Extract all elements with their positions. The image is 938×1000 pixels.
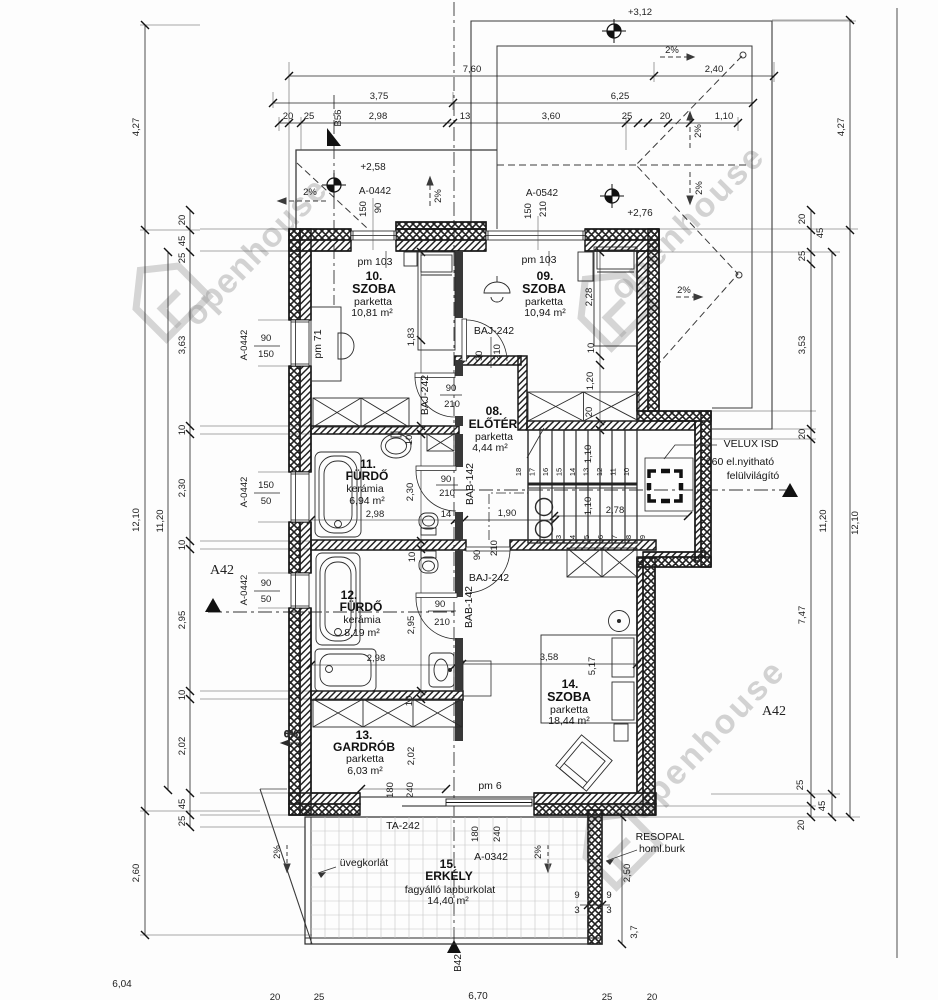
svg-text:BAJ-242: BAJ-242	[469, 572, 509, 584]
svg-text:4: 4	[568, 535, 577, 539]
svg-text:90: 90	[261, 333, 272, 344]
interior wall corridor/room14 right	[510, 540, 656, 550]
svg-text:2%: 2%	[272, 845, 283, 859]
svg-text:20: 20	[796, 820, 807, 831]
section line A42 left	[208, 611, 454, 613]
svg-text:GARDRÓB: GARDRÓB	[333, 739, 395, 754]
svg-text:2,95: 2,95	[177, 611, 188, 630]
svg-text:17: 17	[528, 468, 537, 476]
interior wall eloter/stair vertical	[518, 356, 527, 430]
svg-text:10: 10	[404, 696, 415, 707]
dim 1,90 corridor	[460, 516, 559, 524]
svg-text:25: 25	[622, 111, 633, 122]
svg-text:25: 25	[314, 992, 325, 1000]
svg-text:5: 5	[582, 535, 591, 539]
svg-text:2,40: 2,40	[705, 64, 724, 75]
svg-text:20: 20	[797, 214, 808, 225]
interior wall room10/bath11	[311, 426, 459, 434]
ROOF	[260, 8, 897, 958]
dim 2,50 balcony	[618, 813, 626, 948]
svg-text:A-0342: A-0342	[474, 851, 508, 863]
hip end circle mid	[736, 272, 742, 278]
svg-text:13: 13	[582, 468, 591, 476]
svg-text:3,58: 3,58	[540, 652, 559, 663]
svg-text:2%: 2%	[433, 189, 444, 203]
svg-text:11: 11	[609, 468, 618, 476]
room14 closet	[567, 548, 637, 577]
dim 2,98 bath12	[307, 661, 459, 669]
svg-text:10: 10	[622, 468, 631, 476]
svg-text:1,10: 1,10	[583, 445, 594, 464]
svg-text:BAJ-242: BAJ-242	[419, 375, 431, 415]
svg-text:10,81 m²: 10,81 m²	[351, 307, 393, 319]
svg-text:2,78: 2,78	[606, 505, 625, 516]
svg-text:210: 210	[538, 201, 549, 217]
svg-text:FÜRDŐ: FÜRDŐ	[340, 599, 383, 614]
DIMS	[140, 16, 860, 948]
svg-text:90: 90	[435, 599, 446, 610]
wall bottom	[289, 793, 656, 815]
svg-text:FÜRDŐ: FÜRDŐ	[346, 468, 389, 483]
dim col left 11,20	[164, 248, 172, 794]
svg-text:10: 10	[177, 425, 188, 436]
door labels bath11	[436, 474, 458, 499]
svg-text:9: 9	[574, 890, 579, 901]
svg-text:3,75: 3,75	[370, 91, 389, 102]
svg-text:13: 13	[460, 111, 471, 122]
dim col right detail	[807, 206, 815, 821]
svg-text:1,90: 1,90	[498, 508, 517, 519]
survey target +2,76	[600, 184, 624, 208]
svg-text:12,10: 12,10	[850, 511, 861, 535]
svg-text:2%: 2%	[677, 285, 691, 296]
slope arrow up near 1,10	[687, 112, 693, 148]
svg-text:6,03 m²: 6,03 m²	[347, 765, 383, 777]
room09 nightstand	[578, 252, 593, 281]
gardrob 6% arrow	[281, 729, 302, 746]
door labels corridor rot	[472, 540, 500, 560]
dim row detail top	[275, 119, 742, 127]
svg-text:1,83: 1,83	[406, 328, 417, 347]
svg-text:14: 14	[441, 509, 452, 520]
svg-text:45: 45	[815, 228, 826, 239]
section line A42 right	[454, 489, 790, 491]
FURNITURE	[281, 247, 717, 944]
svg-text:A-0442: A-0442	[239, 575, 250, 606]
interior wall room09 bottom	[455, 356, 521, 365]
svg-text:240: 240	[405, 782, 416, 798]
extension lines left	[140, 25, 312, 935]
svg-text:2,95: 2,95	[406, 616, 417, 635]
svg-text:pm 71: pm 71	[312, 329, 324, 358]
left window spec 3	[239, 575, 280, 606]
svg-text:2,98: 2,98	[367, 653, 386, 664]
window left bath12	[291, 573, 309, 608]
stairwell opening rect	[645, 458, 693, 511]
wall left	[289, 229, 311, 815]
WALLS	[289, 222, 711, 944]
svg-text:150: 150	[358, 201, 369, 217]
balcony tile grid	[311, 817, 588, 938]
velux skylight dashed	[649, 471, 681, 501]
svg-text:180: 180	[385, 782, 396, 798]
stair numbers top	[514, 468, 631, 476]
svg-text:2,02: 2,02	[406, 747, 417, 766]
svg-text:240: 240	[492, 826, 503, 842]
window top room10	[351, 231, 396, 240]
flag B56	[327, 128, 341, 146]
interior wall corridor/room14 left	[311, 540, 466, 550]
sheet edge right	[896, 8, 898, 958]
survey target top	[602, 19, 626, 43]
balcony slab	[305, 817, 602, 944]
roof valley dashed horizontal	[497, 164, 746, 166]
dim col left 4,27/12,10/2,60	[141, 21, 149, 939]
svg-text:9: 9	[606, 890, 611, 901]
dim row 7,60/2,40	[285, 72, 778, 80]
svg-text:3: 3	[554, 535, 563, 539]
door arc room10	[415, 373, 455, 417]
svg-text:SZOBA: SZOBA	[522, 282, 566, 296]
svg-text:3: 3	[606, 905, 611, 916]
room10 desk	[311, 307, 341, 381]
extension lines right	[602, 20, 860, 817]
svg-text:parketta: parketta	[346, 753, 384, 765]
svg-text:20: 20	[647, 992, 658, 1000]
svg-text:90: 90	[472, 550, 483, 561]
svg-text:2,98: 2,98	[369, 111, 388, 122]
wall stair bump right	[695, 411, 711, 567]
svg-text:A-0442: A-0442	[359, 186, 392, 197]
svg-text:210: 210	[489, 540, 500, 556]
svg-text:A42: A42	[762, 704, 786, 719]
wall top outer leaf	[289, 222, 659, 251]
room10 nightstand	[404, 252, 417, 266]
svg-text:14,40 m²: 14,40 m²	[427, 895, 469, 907]
dim row 3,75/6,25	[269, 99, 757, 107]
svg-text:+3,12: +3,12	[628, 7, 652, 18]
bath12 wc	[419, 551, 438, 573]
leader A-0542	[537, 216, 539, 250]
svg-text:12,10: 12,10	[131, 508, 142, 532]
axis B42	[453, 2, 455, 950]
svg-text:2%: 2%	[693, 124, 704, 138]
bath11 wc	[419, 513, 438, 535]
dim door TA 180	[357, 785, 450, 793]
svg-text:11,20: 11,20	[818, 509, 829, 532]
svg-text:7,60: 7,60	[463, 64, 482, 75]
dim ticks resopal 9/3	[580, 901, 610, 909]
room14 bed	[541, 635, 637, 723]
wall right upper room09	[637, 229, 659, 411]
svg-text:A-0442: A-0442	[239, 477, 250, 508]
svg-text:+2,58: +2,58	[360, 162, 386, 173]
svg-text:RESOPAL: RESOPAL	[636, 831, 685, 843]
terrace slope arrow left 2%	[278, 198, 326, 204]
svg-text:pm 103: pm 103	[357, 256, 392, 268]
svg-text:90: 90	[446, 383, 457, 394]
watermark logo 2	[569, 797, 659, 887]
svg-text:45: 45	[817, 801, 828, 812]
door arc bath11	[416, 466, 456, 511]
bath12 shower	[315, 649, 376, 691]
room09 bed	[594, 247, 637, 346]
svg-text:11,20: 11,20	[155, 509, 166, 532]
flag A42 left	[205, 598, 221, 612]
dim chain room09 x600	[596, 248, 604, 434]
svg-text:2,50: 2,50	[622, 864, 633, 883]
svg-text:2%: 2%	[694, 181, 705, 195]
svg-text:ERKÉLY: ERKÉLY	[425, 868, 473, 883]
room10 wardrobe	[313, 398, 409, 427]
svg-text:210: 210	[492, 344, 503, 360]
watermark logo 1	[119, 249, 209, 339]
wall right lower room14	[637, 558, 655, 815]
wall stair bump top	[637, 411, 711, 421]
svg-text:BAJ-242: BAJ-242	[474, 325, 514, 337]
stair treads	[527, 428, 637, 543]
svg-text:üvegkorlát: üvegkorlát	[340, 857, 389, 869]
velux leader	[664, 445, 717, 459]
svg-text:5,17: 5,17	[587, 657, 598, 676]
svg-text:B42: B42	[453, 954, 464, 972]
svg-text:25: 25	[304, 111, 315, 122]
svg-text:210: 210	[434, 617, 450, 628]
svg-text:2%: 2%	[303, 187, 317, 198]
watermark logo 3	[564, 258, 654, 348]
room09 wardrobe	[528, 392, 639, 421]
svg-text:45: 45	[177, 799, 188, 810]
svg-text:150: 150	[258, 349, 274, 360]
svg-text:2,02: 2,02	[177, 737, 188, 756]
dim chain room10 x421	[417, 248, 425, 703]
svg-text:09.: 09.	[537, 269, 554, 283]
dim col left detail	[186, 206, 194, 831]
svg-text:50: 50	[261, 594, 272, 605]
svg-text:2,28: 2,28	[584, 288, 595, 307]
svg-text:ELŐTÉR: ELŐTÉR	[469, 416, 518, 431]
window left bath11	[291, 472, 309, 522]
room14 armchair	[556, 735, 612, 791]
svg-text:25: 25	[795, 780, 806, 791]
svg-text:4,44 m²: 4,44 m²	[472, 442, 508, 454]
svg-text:18,44 m²: 18,44 m²	[548, 715, 590, 727]
dim col right 12,10	[846, 230, 854, 821]
svg-text:50: 50	[261, 496, 272, 507]
svg-text:A-0542: A-0542	[526, 188, 559, 199]
slope arrow right lower	[676, 294, 702, 300]
door labels bath12	[428, 599, 456, 628]
svg-text:2,60: 2,60	[131, 864, 142, 883]
svg-text:20: 20	[177, 215, 188, 226]
roof hip dashed zigzag	[636, 56, 742, 378]
svg-text:180: 180	[470, 826, 481, 842]
door labels room09 rot	[474, 337, 503, 368]
hip end circle top	[740, 52, 746, 58]
svg-text:20: 20	[660, 111, 671, 122]
svg-text:A-0442: A-0442	[239, 330, 250, 361]
dim 2,98 bath11	[307, 516, 459, 524]
svg-text:SZOBA: SZOBA	[352, 282, 396, 296]
svg-text:3,53: 3,53	[797, 336, 808, 355]
svg-text:2,30: 2,30	[405, 483, 416, 502]
svg-text:10: 10	[404, 435, 415, 446]
door labels room10	[440, 383, 462, 410]
terrain diagonal at balcony left	[260, 789, 312, 944]
stair newel circles	[536, 499, 553, 516]
bath12 sink	[429, 653, 454, 687]
bath11 sink	[381, 432, 411, 458]
interior wall bath12/gardrob	[311, 691, 463, 700]
dim col right 11,20/45	[828, 248, 836, 821]
svg-text:4,27: 4,27	[836, 118, 847, 137]
svg-text:homl.burk: homl.burk	[639, 843, 686, 855]
svg-text:+2,76: +2,76	[627, 208, 653, 219]
interior wall stair top	[527, 421, 695, 430]
terrace slope arrow up 2%	[427, 177, 433, 206]
axis B56	[333, 95, 335, 305]
svg-text:6%: 6%	[284, 729, 298, 740]
svg-text:45: 45	[177, 236, 188, 247]
svg-text:10.: 10.	[366, 269, 383, 283]
svg-text:90: 90	[474, 351, 485, 362]
left window spec 2	[239, 477, 280, 508]
svg-text:7: 7	[610, 535, 619, 539]
svg-text:90: 90	[261, 578, 272, 589]
dim col right 4,27	[846, 16, 854, 234]
svg-text:6,94 m²: 6,94 m²	[349, 495, 385, 507]
door arc bath12	[416, 593, 457, 639]
leader A-0442	[372, 198, 374, 250]
svg-text:2%: 2%	[665, 45, 679, 56]
svg-text:10: 10	[177, 690, 188, 701]
balcony resopal band	[588, 810, 602, 944]
svg-text:6: 6	[596, 535, 605, 539]
flag B42 bottom	[447, 940, 461, 953]
svg-text:25: 25	[797, 251, 808, 262]
room10 bed	[418, 252, 455, 350]
svg-text:14.: 14.	[562, 677, 579, 691]
svg-text:2,30: 2,30	[177, 479, 188, 498]
svg-text:TA-242: TA-242	[386, 820, 420, 832]
svg-text:20: 20	[270, 992, 281, 1000]
svg-text:210: 210	[444, 399, 460, 410]
bath12 vanity	[463, 661, 491, 696]
svg-text:6,04: 6,04	[112, 979, 132, 990]
svg-text:10: 10	[177, 540, 188, 551]
svg-text:SZOBA: SZOBA	[547, 690, 591, 704]
svg-text:B56: B56	[333, 110, 344, 127]
svg-text:kerámia: kerámia	[346, 483, 384, 495]
svg-text:210: 210	[439, 488, 455, 499]
survey target terrace	[322, 173, 346, 197]
WATERMARKS	[119, 137, 793, 887]
svg-text:12: 12	[595, 468, 604, 476]
left window spec 1	[239, 330, 280, 361]
svg-text:3,63: 3,63	[177, 336, 188, 355]
svg-text:2,98: 2,98	[366, 509, 385, 520]
gardrob closet	[313, 699, 462, 727]
svg-text:16: 16	[541, 468, 550, 476]
door arc room09	[462, 319, 507, 361]
extension lines top	[273, 62, 774, 229]
terrain vertical left	[260, 788, 287, 790]
svg-text:25: 25	[177, 816, 188, 827]
svg-text:BAB-142: BAB-142	[464, 463, 476, 505]
corridor cabinet	[427, 434, 454, 451]
svg-text:kerámia: kerámia	[343, 614, 381, 626]
svg-text:150: 150	[258, 480, 274, 491]
AXES	[205, 2, 798, 953]
bath12 tub	[316, 553, 360, 645]
wall stair bump bottom	[637, 552, 711, 567]
svg-text:14: 14	[568, 468, 577, 476]
svg-text:90: 90	[441, 474, 452, 485]
svg-text:4,27: 4,27	[131, 118, 142, 137]
bath11 tub	[315, 452, 361, 537]
partition wall segments x455	[455, 251, 463, 741]
room10 chair	[338, 333, 354, 359]
roof inner rect	[497, 46, 752, 408]
svg-text:8: 8	[624, 535, 633, 539]
svg-text:1,20: 1,20	[585, 372, 596, 391]
svg-text:15: 15	[555, 468, 564, 476]
void dash-dot corridor	[489, 493, 528, 540]
svg-text:1,10: 1,10	[715, 111, 734, 122]
svg-text:pm 6: pm 6	[478, 780, 502, 792]
svg-text:20: 20	[584, 407, 595, 418]
balcony door TA-242	[360, 797, 534, 806]
svg-text:3: 3	[574, 905, 579, 916]
svg-text:20: 20	[797, 429, 808, 440]
svg-text:10: 10	[407, 552, 418, 563]
svg-text:3,60: 3,60	[542, 111, 561, 122]
room14 lamp	[609, 611, 630, 632]
svg-text:18: 18	[514, 468, 523, 476]
svg-text:10,94 m²: 10,94 m²	[524, 307, 566, 319]
svg-text:2%: 2%	[533, 845, 544, 859]
svg-text:9: 9	[638, 535, 647, 539]
stair numbers bottom	[554, 535, 647, 539]
svg-text:6,70: 6,70	[468, 991, 488, 1000]
window top room09	[486, 231, 585, 240]
door arc corridor-room14	[466, 547, 510, 593]
dim 3,58 room14	[458, 660, 641, 668]
svg-text:25: 25	[602, 992, 613, 1000]
svg-text:6,25: 6,25	[611, 91, 630, 102]
svg-text:8,19 m²: 8,19 m²	[344, 627, 380, 639]
window left room10	[291, 320, 309, 366]
svg-text:VELUX ISD: VELUX ISD	[724, 438, 779, 450]
svg-text:A42: A42	[210, 563, 234, 578]
svg-text:90: 90	[373, 203, 384, 214]
svg-text:25: 25	[177, 253, 188, 264]
svg-text:pm 103: pm 103	[521, 254, 556, 266]
balcony slope arrow right down	[545, 845, 551, 872]
svg-text:10: 10	[586, 343, 597, 354]
slope arrow down mid	[687, 172, 693, 204]
flag A42 right	[782, 483, 798, 497]
svg-text:7,47: 7,47	[797, 606, 808, 625]
svg-text:felülvilágító: felülvilágító	[727, 470, 780, 482]
svg-text:150: 150	[523, 203, 534, 219]
svg-text:3,7: 3,7	[629, 925, 640, 938]
svg-text:20: 20	[283, 111, 294, 122]
slope arrow top 2%	[660, 54, 694, 60]
room14 side table	[614, 724, 628, 741]
dim 2,78 stair	[550, 512, 692, 520]
roof outer rect	[471, 21, 772, 429]
